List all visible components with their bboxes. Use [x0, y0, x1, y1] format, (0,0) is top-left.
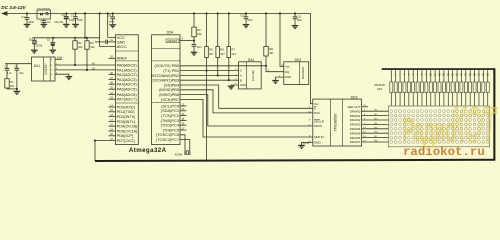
ground	[63, 24, 70, 27]
ground	[41, 24, 48, 27]
svg-text:GND: GND	[240, 83, 246, 87]
svg-text:B: B	[240, 78, 242, 82]
DD3 left pin numbers	[308, 107, 311, 143]
wire SDA to PA0	[55, 62, 116, 65]
wire node X1	[5, 62, 31, 64]
svg-text:DRAIN1: DRAIN1	[350, 114, 361, 118]
svg-text:SER IN: SER IN	[314, 135, 324, 139]
wire ground bus	[95, 160, 494, 161]
svg-text:radiokot.ru: radiokot.ru	[403, 145, 485, 159]
capacitor C10	[240, 12, 253, 24]
svg-text:DD4: DD4	[167, 30, 174, 34]
ground	[14, 91, 21, 94]
wire PB2 to encoder A	[180, 74, 239, 76]
ground	[31, 50, 38, 53]
crystal ZQ1 32768	[29, 38, 43, 50]
svg-text:Vcc: Vcc	[285, 64, 290, 68]
svg-text:Atmega32A: Atmega32A	[129, 147, 167, 154]
ground	[191, 52, 198, 55]
temp sensor DD2 DS18B20	[284, 58, 309, 84]
svg-text:(TOSC2)PC7: (TOSC2)PC7	[156, 137, 179, 142]
resistor R5	[205, 12, 214, 160]
svg-text:DRAIN6: DRAIN6	[350, 136, 361, 140]
label 27k-1W	[54, 20, 63, 24]
wire VCC riser	[107, 12, 116, 37]
shift register DD3 TPIC6B595	[313, 95, 362, 146]
svg-text:DRAIN0: DRAIN0	[350, 109, 361, 113]
MCU left pin stubs	[109, 56, 116, 137]
wire RTC gnd	[55, 73, 69, 77]
wire PB6 to SRCK	[180, 95, 313, 126]
ground	[50, 50, 57, 53]
svg-text:C5: C5	[62, 13, 66, 17]
capacitor C6 on GND pin	[95, 39, 116, 44]
svg-text:E: E	[314, 106, 316, 110]
svg-text:1: 1	[235, 69, 236, 71]
svg-text:SRCLR: SRCLR	[314, 119, 324, 123]
wire PC7 to crystal	[180, 140, 190, 151]
MCU right pin labels	[151, 63, 180, 142]
wire DD3 gnd	[302, 143, 313, 146]
svg-text:C3: C3	[21, 15, 25, 19]
capacitor C7	[71, 12, 84, 24]
wire +V rail	[7, 14, 313, 104]
svg-text:R1: R1	[10, 80, 14, 84]
wire PB4 to E	[180, 85, 313, 108]
encoder DA2	[239, 58, 262, 89]
svg-text:32768: 32768	[175, 152, 183, 156]
capacitor C9	[192, 44, 202, 52]
svg-text:4k7: 4k7	[231, 52, 236, 56]
resistor R3	[85, 38, 95, 71]
wires DRAIN0-7 to matrix rows	[362, 110, 389, 143]
capacitor C11	[293, 12, 303, 25]
resistor R8	[264, 12, 274, 65]
svg-text:10k: 10k	[10, 84, 15, 88]
ground	[243, 25, 250, 28]
svg-text:100n: 100n	[77, 18, 83, 22]
DD3 drain labels	[350, 109, 361, 144]
capacitor C5	[62, 12, 76, 24]
DD3 left pin labels	[314, 102, 324, 145]
wire DD2 vcc	[268, 12, 284, 77]
svg-text:DA2: DA2	[248, 58, 255, 62]
svg-text:10k: 10k	[78, 45, 83, 49]
svg-text:PD7(OC2): PD7(OC2)	[117, 138, 136, 143]
wire column bus	[382, 68, 495, 70]
capacitor C8	[108, 12, 115, 24]
resistor R6	[216, 12, 225, 76]
wire PB3 to encoder B	[180, 79, 239, 81]
capacitor C2	[14, 64, 24, 92]
svg-text:32768: 32768	[35, 45, 42, 48]
voltage regulator U1	[37, 8, 51, 19]
wire PC6 to crystal	[180, 135, 185, 150]
svg-text:Vcc: Vcc	[314, 102, 319, 106]
ground	[298, 145, 305, 148]
svg-text:C2: C2	[14, 64, 18, 68]
svg-text:DRAIN2: DRAIN2	[350, 118, 361, 122]
label R9-R28 220	[374, 83, 385, 91]
svg-text:4k7: 4k7	[209, 52, 214, 56]
ground	[109, 25, 116, 28]
MCU RESET pin	[166, 38, 194, 44]
svg-text:C10: C10	[240, 15, 245, 18]
svg-text:DRAIN7: DRAIN7	[350, 140, 361, 144]
input arrow connector	[1, 11, 7, 16]
svg-text:3: 3	[235, 78, 236, 80]
svg-text:10k: 10k	[197, 32, 202, 36]
svg-text:100n: 100n	[297, 19, 303, 22]
DD3 SER OUT pin	[348, 105, 368, 109]
svg-text:10n: 10n	[197, 45, 202, 49]
svg-text:DC 3.6-12V: DC 3.6-12V	[1, 5, 26, 10]
svg-text:AVCC: AVCC	[117, 44, 128, 49]
svg-text:SRCK: SRCK	[314, 124, 322, 128]
svg-text:DS1307: DS1307	[44, 63, 48, 75]
ground	[272, 81, 279, 84]
wire SCL to PA1	[55, 67, 116, 70]
svg-text:GND: GND	[285, 75, 291, 79]
wire PD7 to gnd bus	[94, 138, 116, 161]
MCU left pin labels	[117, 35, 138, 143]
resistor R1	[5, 79, 17, 89]
svg-text:100n: 100n	[109, 20, 115, 23]
resistors R9-R28 column resistors	[390, 70, 489, 106]
wire PB1 to encoder C	[180, 70, 239, 72]
svg-text:4,7u: 4,7u	[7, 71, 13, 75]
ground	[24, 24, 31, 27]
watermark Radio	[403, 111, 456, 148]
svg-text:DRAIN3: DRAIN3	[350, 123, 361, 127]
svg-text:DD3: DD3	[351, 95, 358, 99]
capacitor C1	[4, 64, 12, 79]
capacitor C4 47u	[40, 19, 52, 25]
MCU DD4 left column box	[116, 35, 139, 145]
svg-text:KP1158EH5B: KP1158EH5B	[37, 8, 50, 10]
LED matrix frame	[388, 106, 489, 147]
svg-text:47u: 47u	[46, 20, 51, 24]
wire SQW	[55, 57, 63, 60]
power input label DC 3.6-12V	[1, 5, 26, 10]
watermark KOT	[452, 99, 498, 152]
ground	[66, 77, 73, 80]
ground	[72, 24, 79, 27]
svg-text:C1: C1	[4, 64, 8, 68]
resistor R4	[192, 12, 202, 44]
svg-text:220: 220	[377, 87, 382, 91]
svg-text:(SCK)PB7: (SCK)PB7	[161, 97, 179, 102]
MCU designator DD4	[167, 30, 174, 34]
resistor R7	[227, 12, 236, 81]
MCU name Atmega32A	[129, 147, 167, 154]
svg-text:RCK: RCK	[314, 111, 320, 115]
svg-text:C7: C7	[71, 13, 75, 17]
wire right bus	[493, 68, 495, 160]
svg-text:SER OUT: SER OUT	[348, 105, 361, 109]
svg-text:100n: 100n	[28, 20, 34, 24]
svg-text:R3: R3	[90, 41, 94, 45]
battery G1	[47, 38, 56, 50]
svg-text:PA7(ADC7): PA7(ADC7)	[117, 97, 138, 102]
ground	[228, 86, 235, 89]
wire encoder gnd	[231, 69, 239, 86]
resistor R2	[73, 38, 83, 66]
MCU right pin stubs	[180, 103, 187, 130]
svg-text:DS18B20: DS18B20	[301, 67, 305, 80]
svg-text:10k: 10k	[90, 45, 95, 49]
svg-text:A: A	[240, 74, 242, 78]
svg-text:DRAIN4: DRAIN4	[350, 127, 361, 131]
wire PB5 to RCK	[180, 90, 313, 113]
svg-text:4k7: 4k7	[269, 51, 274, 55]
wire AVCC riser	[84, 12, 86, 39]
svg-text:2: 2	[235, 74, 236, 76]
capacitor C3	[21, 12, 34, 24]
MCU DD4 right column box	[152, 35, 180, 145]
svg-text:TPIC6B595: TPIC6B595	[334, 114, 338, 132]
wire PB7 to SER IN	[180, 99, 313, 137]
watermark radiokot.ru	[403, 145, 485, 159]
wire 5V node	[32, 37, 99, 39]
svg-text:RESET: RESET	[167, 39, 177, 43]
svg-text:GND: GND	[314, 141, 320, 145]
svg-text:SQW: SQW	[57, 57, 63, 60]
LED matrix pixels	[390, 110, 489, 144]
svg-text:100n: 100n	[247, 19, 253, 22]
wire DD2 gnd	[276, 77, 284, 80]
wire VCC2 riser	[99, 12, 116, 46]
svg-text:DD2: DD2	[295, 58, 302, 62]
svg-text:4: 4	[235, 83, 236, 85]
svg-text:ZQ1: ZQ1	[29, 39, 34, 42]
svg-text:10u: 10u	[19, 71, 24, 75]
crystal ZQ2 32768	[175, 150, 190, 156]
svg-text:AREF: AREF	[117, 56, 128, 61]
RTC DA1 DS1307	[32, 57, 56, 81]
svg-text:DRAIN5: DRAIN5	[350, 131, 361, 135]
svg-text:DA1: DA1	[34, 64, 40, 68]
svg-text:C: C	[240, 69, 242, 73]
svg-text:R2: R2	[78, 41, 82, 45]
svg-text:27k-1W: 27k-1W	[54, 20, 63, 24]
column pin numbers	[390, 74, 489, 77]
ground	[292, 26, 299, 29]
svg-text:Encoder: Encoder	[251, 70, 255, 81]
wire PB0 to DQ	[180, 65, 284, 72]
svg-text:4k7: 4k7	[220, 52, 225, 56]
